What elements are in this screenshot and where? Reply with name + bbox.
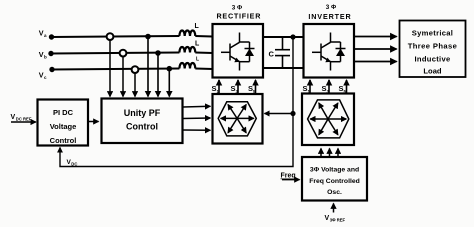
svg-text:Freq: Freq <box>281 173 296 180</box>
wire current sense B <box>157 54 159 97</box>
gate pulse arrow S5 inverter <box>346 80 348 94</box>
capacitor C <box>275 37 290 68</box>
wire phase A <box>52 36 213 37</box>
svg-text:3Φ REF: 3Φ REF <box>330 218 346 223</box>
wire unity PF to gates 1 <box>183 105 210 108</box>
svg-text:Freq Controlled: Freq Controlled <box>309 178 360 185</box>
label Vc <box>39 71 47 81</box>
label oscillator <box>309 167 360 197</box>
svg-text:RECTIFIER: RECTIFIER <box>216 11 261 20</box>
label load <box>408 29 458 76</box>
wire voltage sense B <box>122 57 124 97</box>
label V3ph ref <box>325 215 346 223</box>
IGBT symbol inverter <box>312 33 346 71</box>
svg-text:Symetrical: Symetrical <box>412 29 453 38</box>
inductor L phase A <box>179 30 195 36</box>
label S1 rectifier <box>212 84 220 94</box>
label Vdc ref <box>11 114 32 122</box>
wire current sense C <box>168 69 170 97</box>
label S1 inverter <box>303 84 311 94</box>
label freq <box>281 173 296 180</box>
label C capacitor <box>269 50 275 59</box>
wire Vdc feedback <box>60 37 293 167</box>
inductor L phase C <box>179 63 195 69</box>
junction phase B <box>155 50 161 56</box>
wire V3ph ref input <box>333 204 335 213</box>
oscillator block <box>302 157 367 201</box>
svg-text:C: C <box>269 50 275 59</box>
node Vb terminal <box>48 51 53 56</box>
sensor circle phase A <box>107 33 114 40</box>
rectifier block <box>213 24 264 78</box>
sensor circle phase C <box>132 66 139 73</box>
hexagon pulses rectifier <box>218 102 256 136</box>
wire voltage sense A <box>109 40 111 97</box>
inverter block <box>304 24 355 78</box>
label L phase A <box>195 23 200 30</box>
wire osc to gates 3 <box>337 149 339 158</box>
label S3 inverter <box>322 84 330 94</box>
gate pulse arrow S1 inverter <box>309 80 311 94</box>
inductor L phase B <box>179 47 195 53</box>
svg-text:Control: Control <box>126 122 158 132</box>
svg-text:Load: Load <box>423 67 442 76</box>
svg-text:L: L <box>195 41 200 48</box>
wire Vdc ref input <box>11 121 36 123</box>
wire unity PF to gates 3 <box>183 129 210 131</box>
svg-text:V: V <box>325 215 330 222</box>
label unity PF control <box>124 108 161 132</box>
label Vb <box>39 50 47 60</box>
wire unity PF to gates 2 <box>183 117 210 120</box>
label 3ph rectifier title <box>216 5 261 21</box>
svg-text:V: V <box>11 114 16 121</box>
node DC bus junction <box>290 34 295 39</box>
junction phase C <box>167 66 173 72</box>
wire current sense A <box>147 37 149 97</box>
node Vc terminal <box>49 67 54 72</box>
label S5 rectifier <box>248 84 256 94</box>
label L phase C <box>196 57 199 63</box>
svg-text:L: L <box>196 57 199 63</box>
label Va <box>39 29 47 39</box>
junction phase A <box>145 34 151 40</box>
wire voltage sense C <box>134 73 136 97</box>
IGBT symbol rectifier <box>221 33 255 71</box>
gate pulse arrow S3 inverter <box>328 80 330 94</box>
gate driver block inverter <box>302 94 354 146</box>
label 3ph inverter title <box>308 4 351 21</box>
wire inverter output a <box>355 36 397 38</box>
gate pulse arrow S3 rectifier <box>237 80 239 94</box>
node sense junction <box>290 111 295 116</box>
svg-text:Inductive: Inductive <box>414 55 450 64</box>
svg-text:Control: Control <box>50 136 77 145</box>
sensor circle phase B <box>120 50 127 57</box>
unity PF control block <box>102 99 183 144</box>
svg-text:Unity PF: Unity PF <box>124 108 161 118</box>
hexagon pulses inverter <box>308 100 349 138</box>
node Va terminal <box>49 34 54 39</box>
gate driver block rectifier <box>213 94 263 144</box>
label PI DC voltage control <box>50 108 77 145</box>
wire freq input <box>282 179 300 181</box>
gate pulse arrow S1 rectifier <box>218 80 220 94</box>
svg-text:L: L <box>195 23 200 30</box>
svg-text:3 Φ: 3 Φ <box>326 4 336 11</box>
label Vdc <box>67 159 78 167</box>
svg-text:DC REF: DC REF <box>16 117 32 122</box>
svg-text:3Φ Voltage and: 3Φ Voltage and <box>310 167 359 174</box>
wire DC bus plus rail <box>263 36 304 38</box>
label S3 rectifier <box>231 84 239 94</box>
svg-text:INVERTER: INVERTER <box>308 12 351 21</box>
svg-text:Three Phase: Three Phase <box>408 42 458 51</box>
load block <box>400 21 466 78</box>
svg-text:Voltage: Voltage <box>50 122 77 131</box>
label L phase B <box>195 41 200 48</box>
wire DC bus minus rail <box>263 67 304 69</box>
wire inverter output b <box>355 48 397 50</box>
label S5 inverter <box>339 84 347 94</box>
wire dc sense to gate block <box>265 113 294 115</box>
svg-text:DC: DC <box>71 162 77 167</box>
PI DC voltage control block <box>38 100 89 146</box>
wire phase C <box>52 69 213 70</box>
svg-text:b: b <box>44 55 47 60</box>
wire osc to gates 2 <box>329 149 331 158</box>
wire PI to unity PF <box>89 121 99 123</box>
gate pulse arrow S5 rectifier <box>255 80 257 94</box>
svg-text:PI DC: PI DC <box>53 108 74 117</box>
svg-text:Osc.: Osc. <box>327 189 342 196</box>
wire phase B <box>51 53 213 54</box>
wire inverter output c <box>355 61 397 63</box>
wire osc to gates 1 <box>320 149 322 158</box>
